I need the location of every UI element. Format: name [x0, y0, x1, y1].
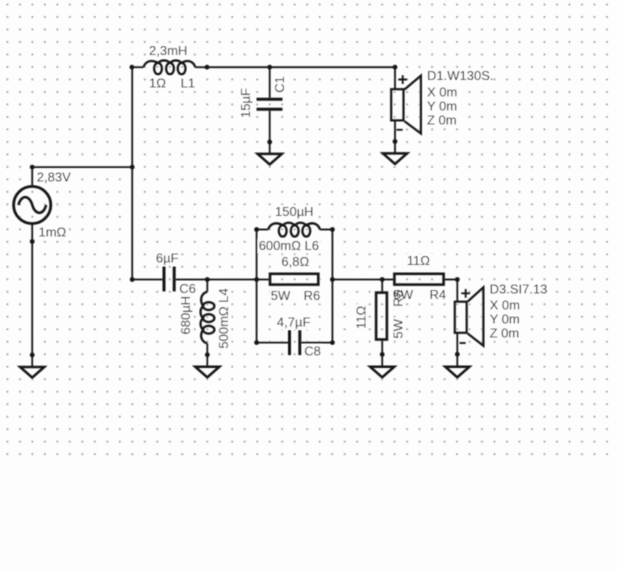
speaker D1 magnet rectangle — [391, 89, 403, 120]
node: D3 ground pin — [455, 352, 460, 357]
node: corner of bottom branch — [130, 277, 135, 282]
wire: R5 bottom lead — [381, 341, 383, 355]
wire: L4 top lead — [206, 280, 208, 292]
wire: out of L1 — [195, 66, 207, 68]
svg-text:11Ω: 11Ω — [354, 306, 369, 329]
speaker D3 minus sign — [460, 342, 466, 344]
node: C1 ground pin — [267, 140, 272, 145]
node: L1 left pin — [130, 65, 135, 70]
ground below C1 — [258, 154, 282, 165]
svg-text:500mΩ L4: 500mΩ L4 — [216, 288, 231, 348]
svg-text:Z 0m: Z 0m — [490, 326, 520, 341]
inductor L1 — [144, 60, 196, 74]
wire: L4 node to parallel block — [207, 279, 268, 281]
resistor R4 — [394, 274, 443, 285]
wire: parallel block right vertical — [331, 230, 333, 343]
capacitor C1 plates — [257, 98, 283, 101]
wire: C1 bottom lead — [269, 111, 271, 142]
speaker D3 magnet rectangle — [455, 302, 467, 333]
svg-text:X 0m: X 0m — [427, 84, 457, 99]
node: D1 ground pin — [393, 139, 398, 144]
wire: D1 top lead — [394, 67, 396, 89]
resistor R5 (vertical) — [376, 293, 387, 340]
speaker D1 cone — [405, 76, 421, 134]
node: L6 left pin — [254, 227, 259, 232]
node: R5 ground pin — [380, 352, 385, 357]
wire: D1 bottom lead — [394, 122, 396, 142]
wire: to L4 ground — [206, 355, 208, 367]
voltage source V1 circle — [14, 186, 51, 223]
wire: into L1 — [132, 66, 144, 68]
svg-text:D1.W130S.: D1.W130S. — [427, 68, 493, 83]
speaker D3 cone — [468, 287, 484, 346]
speaker D3 plus sign — [461, 289, 470, 298]
svg-text:R4: R4 — [430, 287, 447, 302]
svg-text:150µH: 150µH — [275, 204, 314, 219]
svg-text:Y 0m: Y 0m — [427, 98, 457, 113]
wire: C8 right lead — [301, 342, 332, 344]
wire: R5 top lead — [381, 280, 383, 292]
node: parallel block right on main wire — [330, 277, 335, 282]
svg-text:5W: 5W — [390, 318, 405, 338]
wire: out of L6 — [320, 229, 332, 231]
wire: to R5 ground — [381, 354, 383, 366]
node: C8 right — [330, 340, 335, 345]
svg-text:2,83V: 2,83V — [37, 170, 71, 185]
wire: to C1 ground — [269, 142, 271, 154]
svg-text:D3.SI7.13: D3.SI7.13 — [490, 282, 548, 297]
node: L4 ground pin — [205, 352, 210, 357]
svg-text:5W: 5W — [271, 288, 291, 303]
wire: to source ground — [31, 355, 33, 367]
wire: to D1 ground — [394, 142, 396, 154]
svg-text:6,8Ω: 6,8Ω — [281, 254, 309, 269]
wire: main vertical from L1 down to bottom branch — [131, 67, 133, 279]
node: L1 right pin — [205, 65, 210, 70]
node: T junction on main vertical — [130, 165, 135, 170]
wire: C6 to L4 node — [176, 279, 208, 281]
svg-text:600mΩ L6: 600mΩ L6 — [259, 238, 319, 253]
ground below D3 — [445, 367, 469, 378]
svg-text:6µF: 6µF — [156, 250, 179, 265]
wire: top rail L1 to speaker D1 — [207, 66, 395, 68]
voltage source sine wave — [19, 197, 47, 213]
svg-text:1mΩ: 1mΩ — [39, 225, 67, 240]
svg-text:C1: C1 — [272, 76, 287, 93]
svg-text:Z 0m: Z 0m — [427, 113, 457, 128]
wire: into L6 — [257, 229, 269, 231]
wire: D3 bottom lead — [456, 333, 458, 355]
speaker D1 minus sign — [397, 129, 403, 131]
capacitor C8 plates — [288, 330, 291, 355]
label backgrounds (opaque white under labels) — [35, 44, 547, 359]
node: source top pin — [30, 165, 35, 170]
wire: to D3 ground — [456, 354, 458, 366]
wire: bottom branch to C6 — [132, 279, 162, 281]
node: C8 left — [254, 340, 259, 345]
inductor L4 (vertical) — [201, 292, 215, 344]
ground below R5 — [370, 367, 394, 378]
ground below D1 — [383, 153, 407, 164]
svg-text:680µH: 680µH — [178, 296, 193, 335]
svg-text:C8: C8 — [304, 344, 321, 359]
wire: C8 left lead — [257, 342, 288, 344]
node: C6/L4 junction — [205, 277, 210, 282]
ground below L4 — [195, 367, 219, 378]
wire: L4 bottom lead — [206, 343, 208, 354]
capacitor C6 plates — [163, 267, 166, 292]
node: parallel block left — [254, 277, 259, 282]
speaker D1 plus sign — [398, 75, 407, 84]
node: R5 top junction — [380, 277, 385, 282]
node: L6 right pin — [330, 227, 335, 232]
svg-text:R6: R6 — [304, 288, 321, 303]
svg-text:Y 0m: Y 0m — [490, 312, 520, 327]
wire: C1 top lead — [269, 67, 271, 98]
wire: parallel block left vertical — [256, 230, 258, 343]
node: before source ground — [30, 353, 35, 358]
ground below source — [20, 367, 44, 378]
svg-text:C6: C6 — [179, 281, 196, 296]
svg-text:15µF: 15µF — [238, 88, 253, 118]
svg-text:5W: 5W — [394, 287, 414, 302]
svg-text:X 0m: X 0m — [490, 297, 520, 312]
wire: source bottom — [31, 224, 33, 355]
wire: source top to main vertical — [32, 167, 132, 186]
node: speaker D1 top — [393, 65, 398, 70]
svg-text:11Ω: 11Ω — [407, 253, 430, 268]
resistor R6 — [270, 274, 318, 285]
wire: D3 top lead — [456, 280, 458, 302]
svg-text:4,7µF: 4,7µF — [277, 315, 311, 330]
wire: parallel block to R4 — [332, 279, 393, 281]
wire: R4 to speaker D3 — [445, 279, 457, 281]
svg-text:2,3mH: 2,3mH — [149, 43, 187, 58]
svg-text:L1: L1 — [181, 75, 195, 90]
node: source bottom pin — [30, 239, 35, 244]
node: C1 top — [267, 65, 272, 70]
node: D3 top junction — [455, 277, 460, 282]
inductor L6 — [268, 223, 320, 237]
svg-text:1Ω: 1Ω — [149, 75, 166, 90]
